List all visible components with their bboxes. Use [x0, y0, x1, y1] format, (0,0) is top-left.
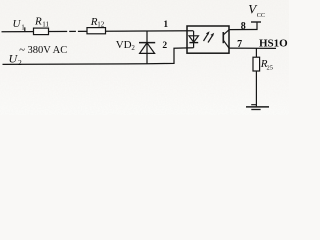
svg-text:2: 2 — [162, 41, 167, 51]
svg-text:1: 1 — [21, 23, 25, 31]
svg-text:U: U — [13, 18, 22, 30]
svg-text:25: 25 — [267, 64, 274, 71]
svg-text:HS1O: HS1O — [259, 38, 288, 50]
svg-text:~ 380V AC: ~ 380V AC — [19, 45, 67, 56]
svg-text:2: 2 — [18, 58, 22, 67]
svg-text:CC: CC — [257, 12, 265, 19]
svg-text:7: 7 — [237, 39, 242, 50]
svg-text:12: 12 — [97, 20, 105, 28]
svg-text:VD: VD — [116, 39, 132, 51]
svg-text:8: 8 — [241, 21, 246, 32]
svg-text:1: 1 — [163, 20, 168, 30]
svg-text:R: R — [34, 16, 42, 28]
svg-text:2: 2 — [131, 44, 135, 52]
svg-text:U: U — [9, 52, 19, 66]
svg-text:11: 11 — [42, 20, 49, 28]
